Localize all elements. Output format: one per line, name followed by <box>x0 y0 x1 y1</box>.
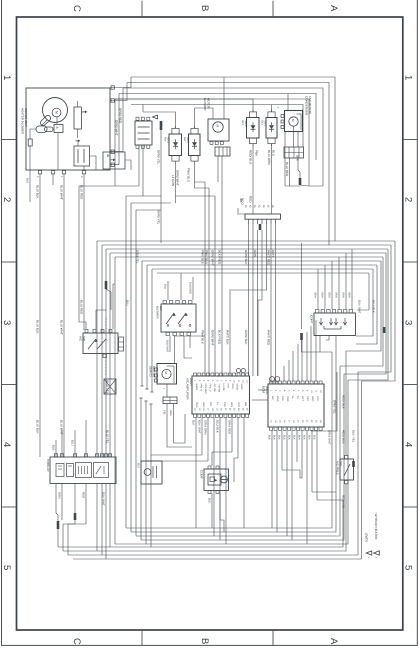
wire <box>335 336 337 345</box>
svg-text:BLK/ WHT: BLK/ WHT <box>101 492 105 506</box>
wire <box>252 399 268 401</box>
svg-text:5: 5 <box>288 390 291 392</box>
wire <box>195 418 197 529</box>
wire <box>167 281 169 300</box>
wire <box>221 156 223 376</box>
wire <box>271 431 273 528</box>
svg-text:22: 22 <box>228 408 231 411</box>
svg-text:3: 3 <box>80 176 83 178</box>
svg-text:BLK: BLK <box>287 435 290 440</box>
wire <box>301 338 303 381</box>
svg-text:20: 20 <box>301 420 304 423</box>
svg-text:SERVO: SERVO <box>149 366 153 377</box>
wire <box>105 249 107 281</box>
wire <box>283 366 285 381</box>
wire <box>140 398 142 540</box>
svg-text:BLK: BLK <box>267 435 270 440</box>
heater relay block <box>50 457 116 484</box>
svg-text:GRN/ WHT: GRN/ WHT <box>210 250 214 266</box>
svg-text:TH: TH <box>296 396 299 399</box>
wire <box>340 257 383 366</box>
splice J3 <box>259 224 262 230</box>
a/c amplifier <box>192 376 250 414</box>
svg-text:17: 17 <box>288 420 291 423</box>
wire <box>175 163 177 203</box>
wire <box>301 431 303 478</box>
wire <box>115 146 139 187</box>
svg-text:BLU/ RED: BLU/ RED <box>188 282 191 294</box>
svg-text:5: 5 <box>1 565 12 570</box>
wire <box>211 493 213 528</box>
svg-text:BLOWER: BLOWER <box>156 306 160 319</box>
wire <box>119 94 316 161</box>
svg-text:NO.1: NO.1 <box>264 121 267 127</box>
svg-text:IGN: IGN <box>227 384 230 388</box>
svg-text:BLU/ BLK: BLU/ BLK <box>35 185 39 200</box>
svg-text:2: 2 <box>198 380 201 382</box>
wire BLU/WHT <box>63 174 65 457</box>
svg-text:M: M <box>291 119 295 122</box>
svg-text:PNK: PNK <box>254 150 258 157</box>
wire <box>243 418 245 529</box>
svg-text:RLY: RLY <box>261 121 264 126</box>
svg-text:16: 16 <box>202 408 205 411</box>
svg-text:(2WD): (2WD) <box>364 533 368 542</box>
svg-text:SW: SW <box>339 461 343 466</box>
wire <box>115 99 309 186</box>
wire <box>41 120 47 126</box>
svg-text:GRN: GRN <box>347 292 350 298</box>
wire <box>237 418 239 459</box>
svg-text:SW: SW <box>159 306 163 311</box>
svg-text:IG: IG <box>106 154 110 158</box>
svg-text:ECT: ECT <box>301 396 304 401</box>
wire <box>293 126 295 147</box>
cell 2 <box>67 464 74 477</box>
svg-text:M: M <box>54 111 58 114</box>
svg-text:M: M <box>164 372 168 375</box>
pin 7 <box>111 163 114 166</box>
svg-text:NO.1: NO.1 <box>167 137 170 143</box>
wire <box>213 418 215 537</box>
wire <box>220 493 224 532</box>
svg-text:14: 14 <box>194 408 197 411</box>
svg-text:1: 1 <box>1 75 12 80</box>
svg-text:ASSY: ASSY <box>189 378 193 386</box>
svg-text:25: 25 <box>241 408 244 411</box>
svg-text:BLU/ BLK: BLU/ BLK <box>371 300 375 313</box>
wire <box>248 224 250 376</box>
svg-text:WHT/ RED: WHT/ RED <box>266 330 270 346</box>
wire <box>63 484 346 551</box>
wire <box>195 108 214 119</box>
blower motor M1 <box>43 98 68 123</box>
svg-text:SW: SW <box>82 336 86 341</box>
svg-text:8: 8 <box>224 380 227 382</box>
svg-text:GRN/ YEL: GRN/ YEL <box>332 400 336 414</box>
svg-text:24: 24 <box>237 408 240 411</box>
svg-text:RED/ BLU: RED/ BLU <box>248 150 252 164</box>
wire <box>109 253 111 356</box>
wire <box>310 326 312 381</box>
servo connector <box>163 397 177 404</box>
wire <box>146 265 148 389</box>
connector strip 2 <box>284 147 304 158</box>
pin <box>270 219 272 224</box>
svg-text:2: 2 <box>36 176 39 178</box>
svg-text:7: 7 <box>220 380 223 382</box>
svg-text:PSW: PSW <box>286 396 289 402</box>
thermal fuse <box>39 114 51 126</box>
svg-text:YEL: YEL <box>162 410 165 415</box>
wire <box>131 203 171 532</box>
wire <box>306 431 308 544</box>
wire <box>270 224 272 384</box>
wire <box>96 310 106 329</box>
a/c switch <box>83 333 118 354</box>
svg-text:WHT/ RED: WHT/ RED <box>266 250 270 266</box>
wire <box>184 336 192 358</box>
svg-text:5: 5 <box>403 565 414 570</box>
resistor <box>29 132 31 139</box>
svg-text:BLK: BLK <box>297 435 300 440</box>
svg-text:15: 15 <box>198 408 201 411</box>
wire <box>302 340 304 352</box>
svg-text:21: 21 <box>224 408 227 411</box>
svg-text:BLK: BLK <box>312 435 315 440</box>
svg-text:19: 19 <box>297 420 300 423</box>
wire <box>298 158 300 178</box>
wire <box>97 240 395 242</box>
svg-text:A: A <box>328 638 339 645</box>
svg-text:5: 5 <box>211 380 214 382</box>
wire <box>357 273 369 310</box>
wire <box>157 272 369 274</box>
svg-text:18: 18 <box>292 420 295 423</box>
splice J8 <box>352 461 355 467</box>
svg-text:9: 9 <box>228 380 231 382</box>
condenser fan relay <box>266 118 277 139</box>
wire <box>223 77 225 119</box>
svg-text:IG: IG <box>291 396 294 399</box>
svg-text:MOTOR UNIT: MOTOR UNIT <box>24 108 28 127</box>
svg-text:17: 17 <box>207 408 210 411</box>
svg-text:RLY: RLY <box>137 463 140 468</box>
wire <box>63 520 75 551</box>
wire <box>317 269 319 309</box>
pin <box>257 219 259 224</box>
svg-text:1: 1 <box>60 176 63 178</box>
svg-text:CONT: CONT <box>310 315 314 324</box>
svg-text:2: 2 <box>403 197 414 202</box>
wire <box>101 245 103 457</box>
svg-text:A/C: A/C <box>79 336 83 342</box>
wire <box>96 241 98 457</box>
svg-text:BLK: BLK <box>302 435 305 440</box>
wire <box>192 277 194 300</box>
svg-text:4: 4 <box>1 442 12 447</box>
compressor pins <box>208 466 211 469</box>
wire <box>296 431 298 462</box>
svg-text:COMP: COMP <box>200 470 204 479</box>
svg-text:GRN/ RED: GRN/ RED <box>227 420 231 434</box>
wire <box>219 418 221 541</box>
wire <box>311 372 337 431</box>
svg-text:FAN MOTOR: FAN MOTOR <box>308 96 312 115</box>
svg-text:1: 1 <box>162 388 165 390</box>
wire <box>289 158 291 186</box>
connector a <box>54 125 63 133</box>
svg-text:GND: GND <box>202 402 205 408</box>
svg-text:16: 16 <box>283 420 286 423</box>
svg-text:BLU/ BLK: BLU/ BLK <box>35 420 39 435</box>
magnet clutch relay <box>247 118 260 139</box>
svg-text:RLY: RLY <box>183 137 186 142</box>
svg-text:3: 3 <box>202 380 205 382</box>
wire <box>142 260 381 262</box>
wire <box>282 470 302 478</box>
svg-text:4: 4 <box>207 380 210 382</box>
junction block J/B <box>245 214 281 219</box>
svg-text:IG: IG <box>244 205 247 208</box>
zone tick marks <box>141 1 143 17</box>
wire BLU/RED <box>83 174 85 330</box>
svg-text:REV: REV <box>306 396 309 401</box>
svg-text:18: 18 <box>211 408 214 411</box>
pin 6 <box>111 150 114 153</box>
wire <box>297 344 299 381</box>
wire <box>271 144 273 215</box>
svg-text:H/RELAY: H/RELAY <box>46 459 50 472</box>
wire <box>180 273 182 300</box>
svg-text:WHT/ BLK: WHT/ BLK <box>225 330 229 346</box>
connector rings 2 <box>270 377 275 382</box>
svg-text:BLU: BLU <box>125 300 129 306</box>
svg-text:IG: IG <box>262 205 265 208</box>
wire <box>189 336 191 348</box>
svg-text:RED: RED <box>248 196 252 203</box>
svg-text:BLOWER: BLOWER <box>203 98 207 111</box>
wire <box>176 196 216 376</box>
wire <box>77 129 79 138</box>
svg-text:GRN: GRN <box>57 492 61 498</box>
wire <box>175 335 206 337</box>
svg-text:6: 6 <box>215 380 218 382</box>
wire <box>110 94 119 165</box>
svg-text:LT GRN: LT GRN <box>171 175 175 186</box>
svg-text:13: 13 <box>270 420 273 423</box>
svg-text:GRN: GRN <box>327 292 330 298</box>
svg-text:1: 1 <box>367 557 370 559</box>
wire <box>331 261 333 309</box>
svg-text:IG: IG <box>248 205 251 208</box>
svg-text:GND: GND <box>311 396 314 402</box>
wire <box>113 284 115 329</box>
wire <box>56 513 58 521</box>
wire <box>174 404 186 443</box>
wire <box>74 430 76 457</box>
svg-text:BLU/ WHT: BLU/ WHT <box>59 320 63 335</box>
pin 2 <box>62 171 65 174</box>
condenser fan motor <box>285 111 303 132</box>
splice J5 <box>74 513 77 520</box>
wire <box>151 454 202 456</box>
wire <box>79 186 115 329</box>
svg-text:4: 4 <box>403 442 414 447</box>
wire <box>285 132 300 186</box>
svg-text:BLU/ WHT: BLU/ WHT <box>59 185 63 200</box>
svg-text:C: C <box>71 5 82 12</box>
wire <box>211 452 213 466</box>
svg-text:IG: IG <box>257 205 260 208</box>
svg-text:GRN: GRN <box>320 292 323 298</box>
wire <box>109 484 111 548</box>
pin 5 <box>111 99 114 102</box>
wire <box>358 245 391 555</box>
note triangle <box>153 115 158 119</box>
svg-text:ILLUM: ILLUM <box>222 384 225 391</box>
svg-text:BLU/ ORN: BLU/ ORN <box>267 150 271 165</box>
svg-text:IG: IG <box>266 205 269 208</box>
wire <box>356 265 377 344</box>
wire <box>115 99 253 112</box>
svg-text:A: A <box>328 5 339 12</box>
svg-text:GRN/ WHT: GRN/ WHT <box>327 430 331 445</box>
svg-text:ILL: ILL <box>216 402 219 406</box>
splice J6 <box>300 333 303 340</box>
svg-text:22: 22 <box>310 420 313 423</box>
svg-text:8: 8 <box>301 390 304 392</box>
connector rings <box>236 369 240 373</box>
wire <box>125 160 131 170</box>
wire <box>135 210 137 536</box>
wire <box>252 144 254 215</box>
svg-text:BLWR: BLWR <box>195 384 198 391</box>
wire BLU/BLK <box>39 174 41 457</box>
blower resistor block <box>135 121 152 145</box>
wire <box>344 253 386 374</box>
svg-text:3: 3 <box>279 390 282 392</box>
wire <box>271 105 273 112</box>
servo motor <box>157 364 177 385</box>
wire <box>362 241 396 559</box>
wire <box>102 244 391 246</box>
svg-text:3: 3 <box>1 320 12 325</box>
splice J2 <box>299 178 302 185</box>
wire <box>126 196 143 528</box>
resistor R2 <box>74 107 81 129</box>
svg-text:FAN LO: FAN LO <box>209 384 212 392</box>
rear heater relay <box>141 461 162 484</box>
svg-text:BLU: BLU <box>70 440 74 446</box>
wire <box>311 431 313 492</box>
wire <box>85 420 87 457</box>
svg-text:BLK: BLK <box>277 435 280 440</box>
svg-text:PWR: PWR <box>195 402 198 408</box>
wire <box>348 249 388 380</box>
wire <box>123 88 323 186</box>
svg-text:NO.1: NO.1 <box>186 137 189 143</box>
wire <box>297 132 299 147</box>
heater blower switch <box>161 304 196 332</box>
svg-text:13: 13 <box>246 380 249 383</box>
wire <box>234 458 238 482</box>
pin 3 <box>82 171 85 174</box>
svg-text:NO.2: NO.2 <box>240 198 244 205</box>
svg-text:BLU: BLU <box>163 284 166 289</box>
wire <box>147 264 377 266</box>
power transistor unit <box>208 119 229 141</box>
wire <box>346 261 381 455</box>
svg-text:RED/ BLK: RED/ BLK <box>341 395 345 409</box>
pin 4 <box>111 86 114 89</box>
svg-text:BLK: BLK <box>51 445 55 451</box>
wire <box>160 130 162 243</box>
heater blower unit box <box>26 88 110 170</box>
svg-text:IG: IG <box>253 205 256 208</box>
svg-text:BLK/ RED: BLK/ RED <box>217 330 221 345</box>
wire <box>288 360 290 381</box>
svg-text:BLK: BLK <box>191 420 195 426</box>
svg-text:B: B <box>199 638 210 644</box>
wire <box>52 174 54 185</box>
wire <box>126 352 332 528</box>
svg-text:12: 12 <box>319 390 322 393</box>
svg-text:BLU: BLU <box>271 150 275 156</box>
wire <box>312 491 336 493</box>
wire <box>114 257 116 544</box>
cell 3 <box>76 463 92 478</box>
svg-text:SIG: SIG <box>244 402 247 406</box>
wire <box>106 248 388 250</box>
svg-text:11: 11 <box>315 390 318 393</box>
svg-text:MOTOR: MOTOR <box>207 98 211 109</box>
svg-text:21: 21 <box>306 420 309 423</box>
svg-text:B: B <box>199 5 210 11</box>
svg-text:10: 10 <box>310 390 313 393</box>
svg-text:VCC: VCC <box>237 402 240 407</box>
ecm <box>268 384 324 427</box>
svg-text:RED/ YEL: RED/ YEL <box>341 495 345 509</box>
wire <box>131 344 336 532</box>
wire <box>207 418 209 462</box>
splice J1 <box>160 121 163 130</box>
wire <box>291 431 293 540</box>
a/c pressure switch <box>340 459 354 480</box>
svg-text:BLU/ RED: BLU/ RED <box>79 300 83 315</box>
svg-text:BLU/ YEL: BLU/ YEL <box>105 430 109 444</box>
splice J9 <box>105 281 108 289</box>
pin 8 <box>51 171 54 174</box>
wire <box>55 440 57 457</box>
svg-text:BLK: BLK <box>272 435 275 440</box>
svg-text:19: 19 <box>215 408 218 411</box>
splice J4 <box>57 521 60 529</box>
svg-text:BLU/ BLK: BLU/ BLK <box>215 420 219 433</box>
svg-text:BLK: BLK <box>307 435 310 440</box>
svg-text:GRN: GRN <box>334 292 337 298</box>
wire <box>257 230 259 376</box>
svg-text:PNK/ BLU: PNK/ BLU <box>186 168 190 182</box>
svg-text:9: 9 <box>306 390 309 392</box>
wire <box>286 431 288 536</box>
wire <box>101 484 103 556</box>
wire <box>131 77 335 241</box>
svg-text:GRN/ ORN: GRN/ ORN <box>203 420 207 434</box>
iso box <box>103 152 125 169</box>
svg-text:GRN/ BLK: GRN/ BLK <box>244 250 248 265</box>
svg-text:GND: GND <box>231 384 234 389</box>
